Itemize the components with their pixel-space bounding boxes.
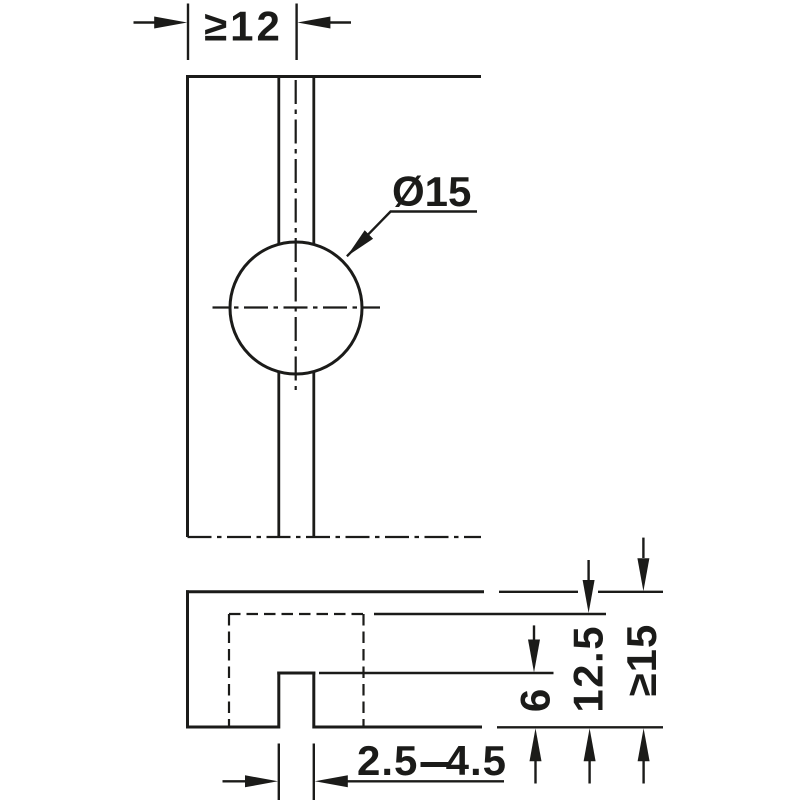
svg-text:4.5: 4.5: [446, 737, 507, 784]
wire section bottom edge right: [314, 726, 482, 729]
wire extension of notch top for 6: [319, 672, 554, 674]
wire section bottom edge left: [186, 726, 279, 729]
node drill hole circle D15: [230, 242, 362, 374]
wire vertical centerline of groove: [295, 80, 297, 390]
wire extension line left of >=12: [187, 4, 189, 61]
wire upper arrow shaft of >=15: [642, 538, 644, 558]
node lower arrowhead of 12.5 pointing up: [584, 728, 596, 761]
node arrowhead left of 2.5-4.5 pointing right: [245, 775, 278, 787]
svg-text:6: 6: [511, 689, 558, 712]
wire lower arrow shaft of >=15: [642, 760, 644, 784]
wire extension of hidden top for 12.5: [374, 613, 606, 615]
wire left arrow shaft of 2.5-4.5: [223, 780, 249, 782]
svg-text:2.5: 2.5: [357, 737, 418, 784]
wire hidden profile top dashed: [229, 613, 364, 615]
wire hidden profile right dashed: [362, 614, 364, 727]
node arrowhead right of >=12 pointing left: [297, 17, 330, 29]
wire extension line left of 2.5-4.5: [278, 744, 280, 800]
wire section left edge: [186, 590, 189, 728]
node upper arrowhead of >=15 pointing down: [637, 558, 649, 591]
wire notch left line: [277, 672, 280, 729]
wire panel bottom break chain line: [188, 536, 482, 538]
wire left arrow shaft of >=12: [134, 21, 157, 23]
wire panel left edge (front view): [186, 75, 189, 537]
wire extension line right of 2.5-4.5: [313, 744, 315, 800]
wire right arrow shaft of >=12: [330, 21, 351, 23]
wire leader line for D15: [347, 212, 477, 257]
node upper arrowhead of 6 pointing down: [528, 640, 540, 673]
node lower arrowhead of 6 pointing up: [530, 728, 542, 761]
wire bottom extension line: [497, 726, 663, 728]
wire horizontal centerline of hole: [213, 306, 381, 308]
wire right arrow shaft of 2.5-4.5: [346, 780, 504, 782]
node leader arrowhead pointing to hole circle: [347, 230, 373, 256]
wire extension line right of >=12: [295, 4, 297, 61]
svg-text:Ø15: Ø15: [392, 168, 471, 215]
wire hidden profile left dashed: [228, 614, 230, 727]
wire lower arrow shaft of 6: [534, 760, 536, 784]
node dash of 2.5-4.5 label: [421, 762, 451, 767]
wire upper arrow shaft of 12.5: [587, 560, 589, 581]
svg-text:≥15: ≥15: [618, 624, 665, 697]
wire notch right line: [312, 672, 315, 729]
svg-text:≥12: ≥12: [204, 3, 283, 50]
wire notch top line: [277, 672, 315, 675]
node arrowhead right of 2.5-4.5 pointing left: [315, 775, 348, 787]
wire groove left line: [277, 77, 280, 538]
svg-text:12.5: 12.5: [565, 625, 612, 713]
wire lower arrow shaft of 12.5: [588, 760, 590, 784]
wire groove right line: [312, 77, 315, 538]
node lower arrowhead of >=15 pointing up: [638, 728, 650, 761]
wire section top edge: [186, 590, 484, 593]
node upper arrowhead of 12.5 pointing down: [583, 580, 595, 613]
wire extension of section top edge right part 2: [598, 591, 663, 593]
wire upper arrow shaft of 6: [533, 625, 535, 640]
node arrowhead left of >=12 pointing right: [154, 17, 187, 29]
wire panel top edge (front view): [186, 75, 481, 78]
wire extension of section top edge right part 1: [499, 591, 578, 593]
